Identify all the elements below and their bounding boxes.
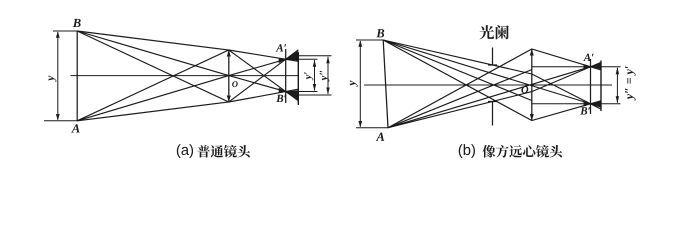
label B (a)	[73, 19, 81, 27]
label A (b)	[376, 133, 384, 141]
ideal image plane A'B' (a)	[285, 49, 287, 103]
caption (b) prefix	[459, 144, 475, 158]
bottom extension line at A (a)	[44, 120, 77, 122]
caption (a) prefix	[177, 144, 193, 158]
bottom extension line for y'' (a)	[296, 94, 332, 96]
converging cone into B' (b)	[584, 101, 591, 107]
dimension line y'' (a)	[326, 56, 329, 94]
label B (b)	[376, 29, 384, 37]
aperture stop lower jaw	[488, 102, 497, 126]
label A (a)	[71, 124, 79, 132]
converging cone into B' (a)	[279, 88, 286, 93]
label B' (b)	[580, 107, 590, 114]
label B' (a)	[276, 95, 286, 102]
label y (a)	[49, 76, 57, 82]
label A' (a)	[276, 44, 286, 51]
ray A via lens top to A' (a)	[77, 50, 298, 121]
ray B via stop bottom edge to lens bottom tip to B' (b)	[383, 40, 601, 121]
sensor plane (b)	[600, 61, 602, 112]
label y' (a)	[304, 72, 313, 80]
chief ray A horizontal to A' and extension (b)	[532, 66, 621, 68]
ray A via stop top edge to lens top tip to A' (b)	[388, 49, 601, 128]
dimension line y''=y' (b)	[616, 67, 619, 103]
object line AB (b)	[383, 40, 388, 128]
dimension line y (b)	[358, 41, 362, 128]
converging cone into A' (b)	[584, 64, 591, 70]
ray A via center O to A' (a)	[77, 56, 298, 121]
object line AB (a)	[76, 31, 78, 121]
bottom extension line at A (b)	[356, 127, 388, 129]
ray A via lens bottom to A' (a)	[77, 50, 298, 121]
chief ray B to lens (b)	[383, 40, 532, 101]
dimension line y' (a)	[313, 60, 316, 91]
ray A through O to A' (b)	[388, 64, 601, 128]
dimension line y (a)	[56, 32, 60, 121]
blur cone past A' (a)	[286, 51, 299, 61]
caption (a) chinese 普通镜头	[197, 145, 209, 158]
ray A via stop bottom edge to A' (b)	[388, 62, 601, 127]
label y (b)	[350, 81, 358, 87]
label y'' (a)	[320, 71, 330, 82]
label guang-lan (aperture stop)	[480, 25, 494, 39]
ray B via center O to B' (a)	[77, 31, 298, 95]
blur cone past B' (b)	[591, 101, 602, 107]
sensor plane (a)	[297, 52, 299, 105]
blur cone past A' (b)	[591, 63, 602, 69]
label O (a)	[232, 81, 238, 87]
caption (b) chinese 像方远心镜头	[482, 145, 495, 158]
top extension line at B (a)	[53, 30, 77, 32]
ray B via stop top edge to B' (b)	[383, 40, 601, 109]
top extension line at B (b)	[356, 39, 383, 41]
converging cone into A' (a)	[279, 58, 286, 63]
ideal image plane A'B' (b)	[590, 59, 592, 114]
lens double arrow (b)	[530, 49, 534, 121]
optical axis (b)	[364, 84, 612, 86]
optical axis (a)	[71, 75, 300, 77]
label A' (b)	[583, 54, 593, 61]
chief ray A to lens (b)	[388, 70, 532, 128]
ray B via lens bottom to B' (a)	[77, 31, 298, 102]
extension line at A' for y' (a)	[291, 58, 318, 60]
label O (b)	[521, 86, 528, 93]
label y''=y' (b)	[625, 66, 635, 100]
ray B through O to B' (b)	[383, 40, 601, 107]
chief ray B horizontal to B' and extension (b)	[532, 103, 621, 105]
lens double arrow (a)	[227, 50, 231, 102]
extension line at B' for y' (a)	[291, 91, 318, 93]
ray B via lens top to B' (a)	[77, 31, 298, 101]
blur cone past B' (a)	[286, 90, 299, 100]
top extension line for y'' (a)	[296, 55, 332, 57]
aperture stop upper jaw	[488, 48, 497, 66]
